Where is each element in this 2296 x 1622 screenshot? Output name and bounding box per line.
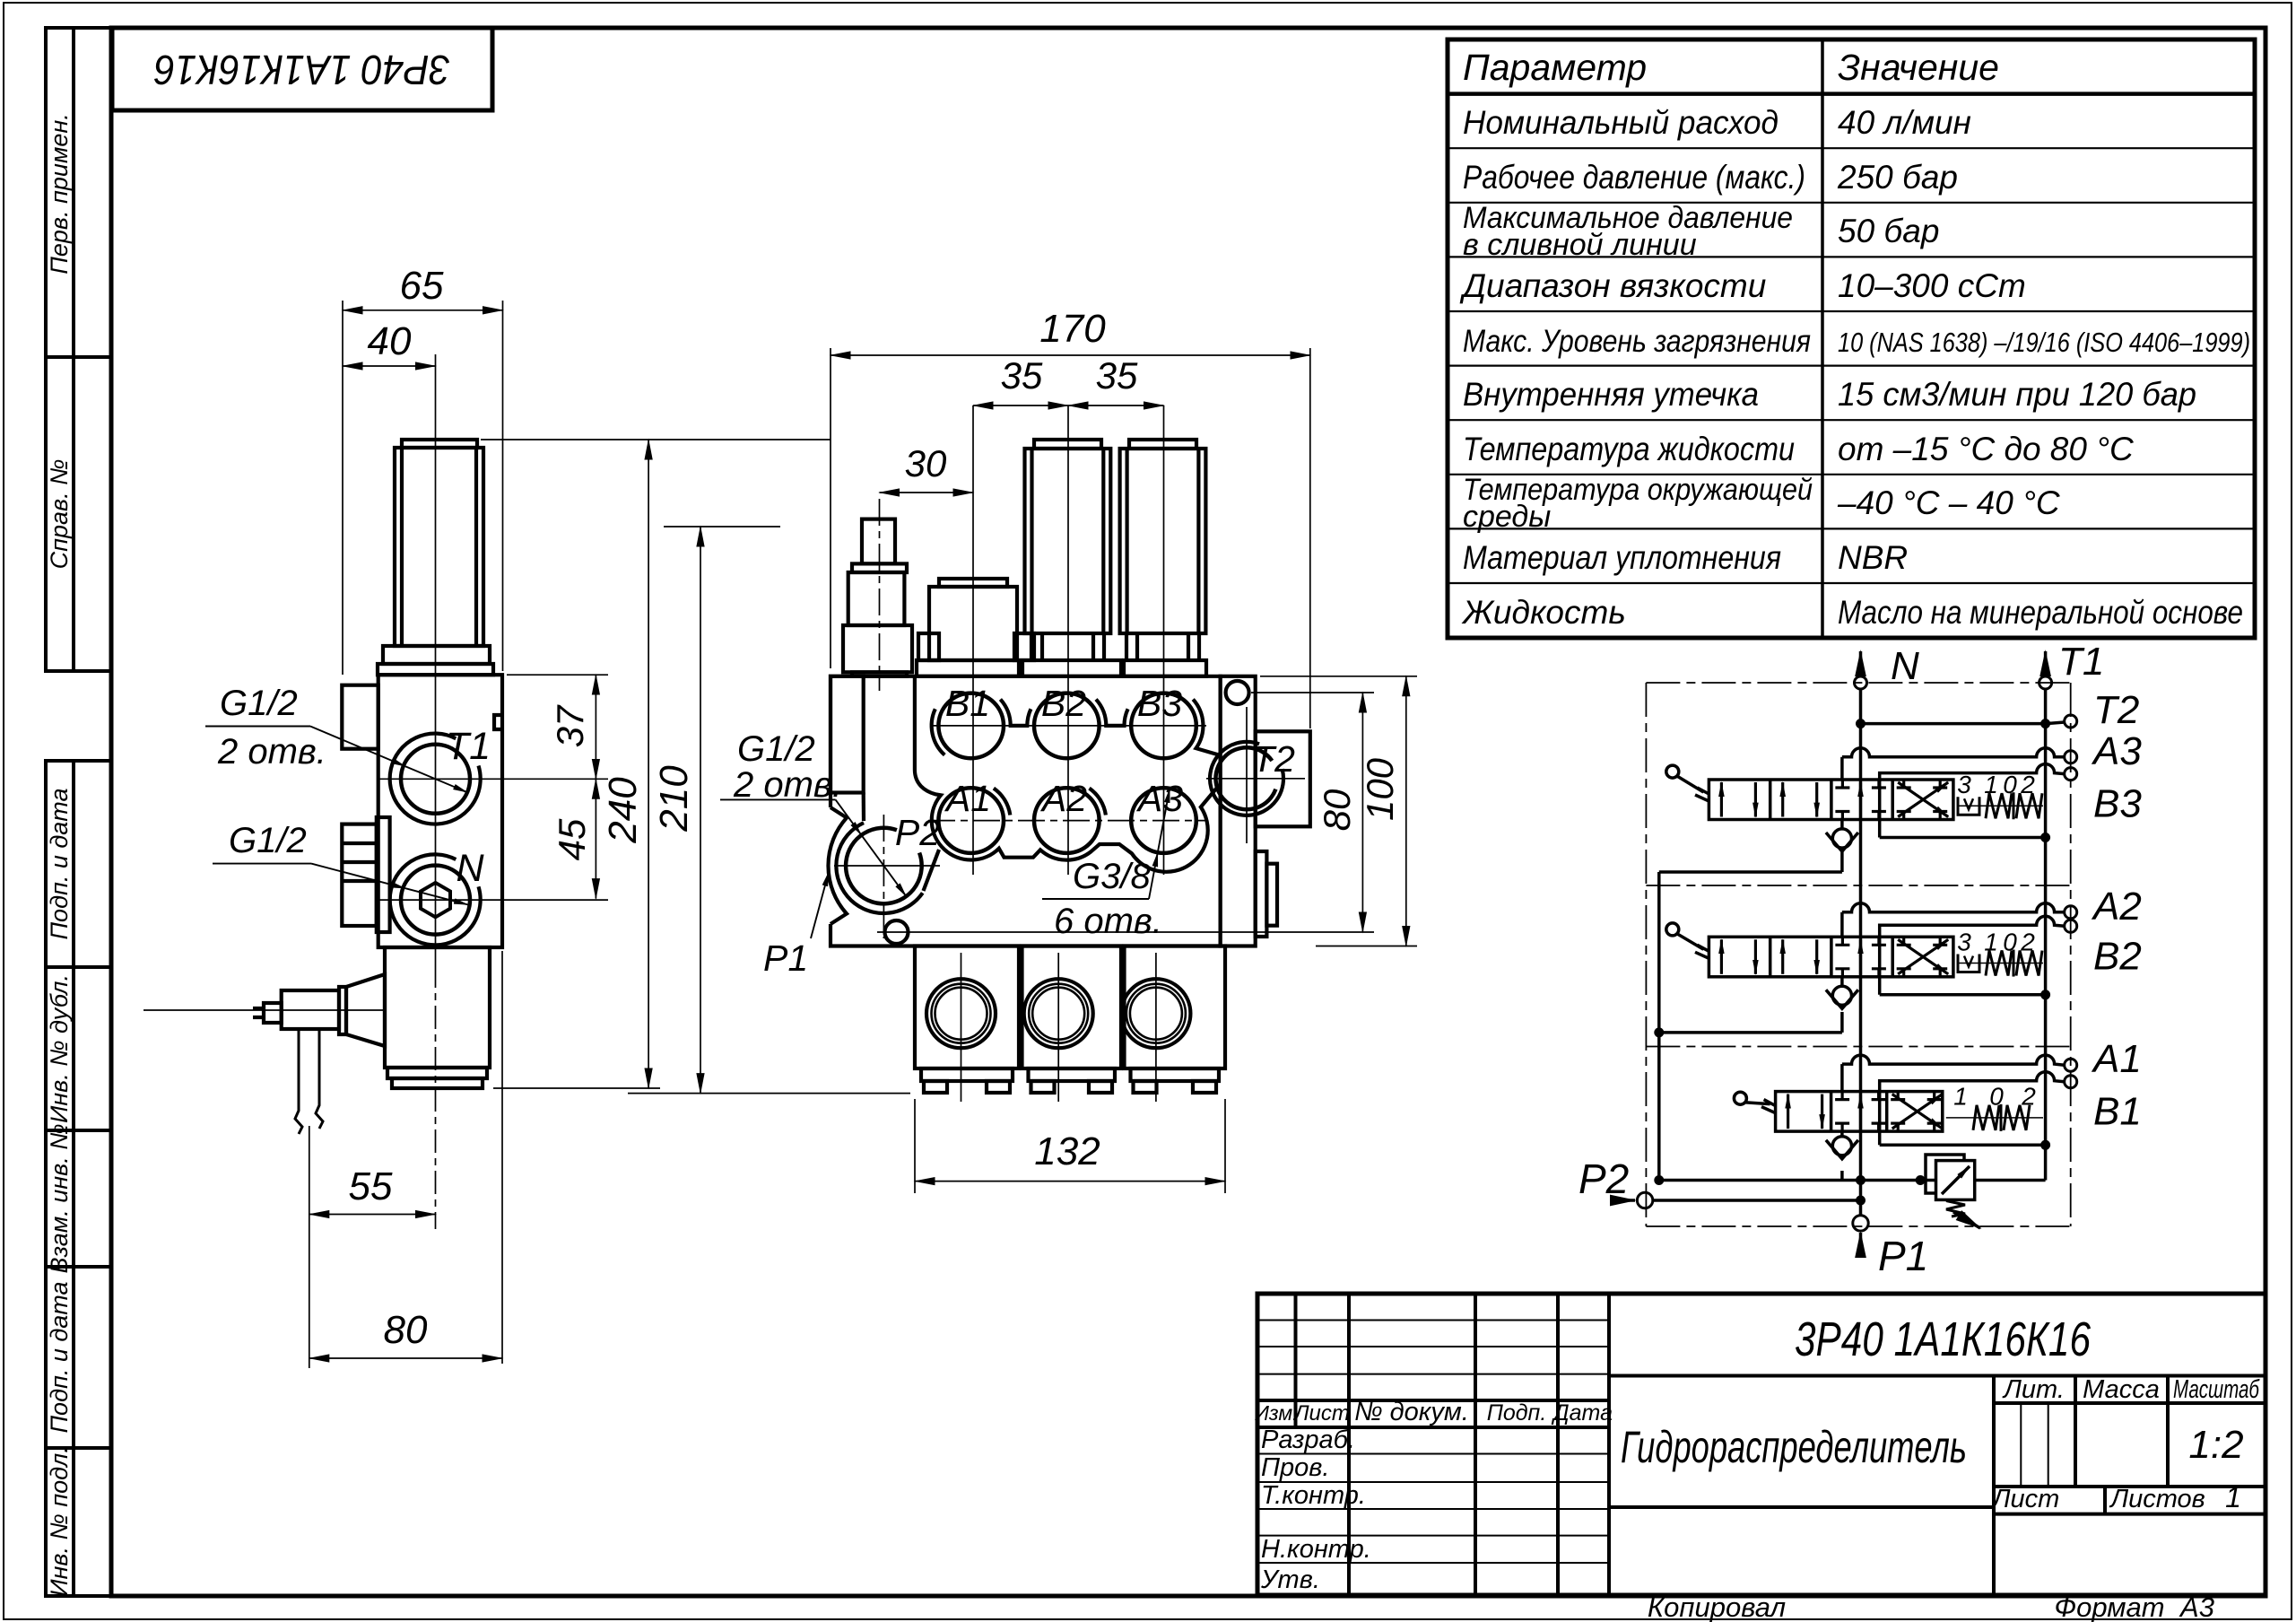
svg-text:132: 132	[1034, 1129, 1100, 1173]
parameter table	[1448, 39, 2255, 638]
svg-text:В2: В2	[1041, 683, 1086, 724]
N riser line	[1859, 689, 1863, 1216]
top stamp box with inverted designation	[112, 28, 492, 110]
svg-text:Номинальный расход: Номинальный расход	[1463, 104, 1779, 141]
main body	[831, 676, 1221, 946]
svg-text:40: 40	[368, 319, 412, 363]
svg-text:10 (NAS 1638) –/19/16 (ISO 440: 10 (NAS 1638) –/19/16 (ISO 4406–1999)	[1838, 327, 2250, 358]
svg-text:Т2: Т2	[1252, 738, 1295, 780]
valve DV2 check valve	[1826, 977, 1858, 1009]
valve DV3 check valve	[1826, 820, 1858, 852]
svg-text:Р2: Р2	[895, 812, 940, 853]
right side tabs	[1256, 851, 1267, 937]
svg-text:В1: В1	[2093, 1090, 2142, 1134]
svg-text:Копировал: Копировал	[1648, 1591, 1786, 1622]
svg-text:50 бар: 50 бар	[1838, 213, 1939, 249]
T1 return line	[2044, 689, 2048, 1145]
dim 210	[628, 527, 910, 1094]
valve DV3 position labels	[1957, 771, 2035, 798]
svg-text:250 бар: 250 бар	[1837, 159, 1958, 196]
label P1 leader	[811, 872, 829, 938]
svg-text:А3: А3	[1135, 778, 1183, 819]
valve DV3 B line / holder	[1880, 764, 2065, 838]
svg-text:1: 1	[1953, 1083, 1968, 1111]
relief valve stack	[862, 519, 895, 564]
svg-text:35: 35	[1096, 354, 1138, 397]
valve DV3 lever	[1666, 765, 1709, 801]
side view lower left block	[342, 824, 377, 926]
svg-text:37: 37	[549, 704, 591, 747]
valve DV1 return springs	[1946, 1104, 2043, 1131]
port labels	[895, 683, 1295, 853]
svg-text:Справ. №: Справ. №	[46, 459, 73, 570]
square cap over section 1	[939, 579, 1007, 587]
svg-text:10–300 сСт: 10–300 сСт	[1838, 267, 2026, 304]
port В3	[2065, 768, 2077, 780]
svg-text:Макс. Уровень загрязнения: Макс. Уровень загрязнения	[1463, 324, 1811, 359]
svg-text:Р2: Р2	[1578, 1155, 1629, 1202]
valve DV2 T return	[1880, 993, 2046, 997]
svg-text:Рабочее давление (макс.): Рабочее давление (макс.)	[1463, 159, 1805, 196]
P2 boss outline	[828, 807, 847, 924]
valve DV1 spool positions	[1788, 1092, 1943, 1132]
port T2 arcs	[1210, 742, 1283, 815]
ports B1 B2 B3 A1 A2 A3 bores	[938, 693, 1196, 853]
hex socket	[421, 883, 450, 917]
svg-text:А3: А3	[2091, 729, 2142, 773]
svg-text:2 отв.: 2 отв.	[217, 732, 326, 772]
port P2 spot face	[836, 823, 922, 913]
valve DV1 B line / holder	[1880, 1072, 2065, 1146]
svg-text:Дата: Дата	[1551, 1400, 1613, 1426]
svg-text:Р1: Р1	[763, 937, 808, 979]
svg-text:30: 30	[905, 442, 947, 484]
relief valve RV	[1926, 1145, 2046, 1228]
leader G3/8 6 otv to A3	[1042, 789, 1170, 899]
subplate dash-dot boundary	[1646, 683, 2070, 1226]
P supply rail	[1657, 872, 1661, 1181]
svg-text:В2: В2	[2093, 934, 2142, 978]
svg-text:Утв.: Утв.	[1260, 1565, 1320, 1594]
pocket slivers A row	[994, 789, 1010, 815]
svg-text:55: 55	[349, 1164, 393, 1208]
svg-text:Инв. № дубл.: Инв. № дубл.	[46, 974, 73, 1123]
svg-text:Листов: Листов	[2109, 1485, 2205, 1513]
dim 40	[343, 365, 436, 367]
svg-text:Взам. инв. №: Взам. инв. №	[46, 1124, 73, 1274]
svg-text:Н.контр.: Н.контр.	[1261, 1535, 1371, 1564]
side view handle	[346, 974, 385, 1046]
box Podp i data 1	[46, 761, 111, 967]
port А2	[2065, 906, 2077, 919]
svg-text:2: 2	[2021, 1083, 2036, 1111]
svg-text:3Р40 1А1К16К16: 3Р40 1А1К16К16	[154, 47, 450, 93]
leader G1/2 to N	[213, 864, 468, 905]
valve DV2 return springs	[1957, 950, 2043, 977]
valve DV1 position labels	[1953, 1083, 2036, 1111]
svg-text:Значение: Значение	[1838, 47, 1999, 88]
svg-text:В3: В3	[1137, 683, 1182, 724]
dim 55	[309, 1126, 436, 1368]
box Vzam inv No	[46, 1130, 111, 1267]
svg-text:Т.контр.: Т.контр.	[1261, 1481, 1366, 1510]
side view actuator	[385, 947, 490, 1068]
port N	[390, 854, 481, 945]
tall cap over section 2	[1034, 440, 1101, 449]
box Inv No podl	[46, 1448, 111, 1596]
svg-text:1: 1	[1984, 928, 1998, 955]
port T1	[2039, 676, 2052, 689]
section top plates	[917, 660, 1019, 676]
svg-text:Р1: Р1	[1878, 1233, 1928, 1279]
bolt hole top right	[1226, 681, 1249, 704]
svg-text:6 отв.: 6 отв.	[1054, 902, 1162, 941]
svg-text:А2: А2	[1039, 778, 1087, 819]
dim 80	[309, 951, 502, 1364]
svg-text:2: 2	[2020, 928, 2035, 955]
svg-text:210: 210	[652, 765, 696, 833]
left margin boxes	[46, 28, 111, 1596]
box Perv primen	[46, 28, 111, 357]
T2 boss block	[1256, 731, 1310, 826]
svg-text:0: 0	[2003, 928, 2017, 955]
valve DV3 A line	[1840, 757, 1844, 780]
svg-text:Разраб.: Разраб.	[1261, 1426, 1355, 1454]
svg-text:А2: А2	[2091, 885, 2142, 929]
svg-text:170: 170	[1039, 307, 1106, 351]
svg-text:45: 45	[551, 818, 593, 860]
valve DV3 spool positions	[1721, 780, 1948, 820]
svg-text:G1/2: G1/2	[737, 729, 815, 769]
pocket contour upper strand	[915, 676, 1219, 872]
dim 65	[343, 301, 503, 675]
leader G1/2 2 otv. to T1	[205, 727, 467, 793]
svg-text:–40 °С – 40 °С: –40 °С – 40 °С	[1837, 484, 2060, 521]
svg-text:Внутренняя утечка: Внутренняя утечка	[1463, 376, 1759, 413]
svg-text:G1/2: G1/2	[229, 821, 307, 860]
valve DV1 check valve	[1826, 1131, 1858, 1159]
port В2	[2065, 920, 2077, 932]
svg-text:В3: В3	[2093, 782, 2142, 826]
center lines central view	[834, 405, 1305, 1102]
dim 240	[481, 440, 831, 1088]
svg-text:35: 35	[1001, 354, 1043, 397]
svg-text:Масса: Масса	[2083, 1375, 2160, 1404]
svg-text:15 см3/мин при 120 бар: 15 см3/мин при 120 бар	[1838, 376, 2196, 413]
dim 170	[831, 348, 1310, 728]
svg-text:1: 1	[1984, 771, 1998, 798]
bolt hole bottom left	[885, 920, 909, 944]
svg-text:Перв. примен.: Перв. примен.	[46, 113, 73, 274]
directional valve DV3 body	[1709, 780, 1952, 820]
P collector line	[1659, 1179, 1936, 1182]
svg-text:3Р40 1А1К16К16: 3Р40 1А1К16К16	[1795, 1312, 2092, 1366]
svg-text:N: N	[1891, 644, 1919, 688]
dim 37	[507, 675, 608, 779]
svg-text:Подп. и дата: Подп. и дата	[46, 788, 73, 939]
svg-text:Лист: Лист	[1292, 1401, 1350, 1426]
svg-text:Параметр: Параметр	[1463, 47, 1647, 88]
dim 80	[877, 693, 1374, 932]
side view wires	[295, 1029, 323, 1134]
svg-text:3: 3	[1957, 771, 1971, 798]
svg-text:Лит.: Лит.	[2002, 1375, 2065, 1404]
directional valve DV1 body	[1776, 1092, 1943, 1132]
svg-text:от –15 °С до 80 °С: от –15 °С до 80 °С	[1838, 431, 2134, 467]
port P2	[1637, 1192, 1652, 1208]
svg-text:3: 3	[1957, 928, 1971, 955]
svg-text:100: 100	[1359, 757, 1401, 821]
svg-text:Т1: Т1	[446, 725, 491, 768]
svg-text:Температура жидкости: Температура жидкости	[1463, 431, 1795, 467]
title block	[1257, 1294, 2266, 1595]
DV3 feed branch	[1659, 870, 1842, 874]
side view upper left block	[342, 685, 378, 749]
valve DV1 T return	[1880, 1144, 2046, 1147]
valve DV2 position labels	[1957, 928, 2035, 955]
dim 35 35	[973, 405, 1164, 406]
relief valve sleeve	[831, 676, 864, 793]
valve DV1 lever	[1734, 1092, 1775, 1112]
svg-text:Изм.: Изм.	[1254, 1401, 1298, 1425]
port А3	[2065, 751, 2077, 763]
valve DV2 spool positions	[1721, 937, 1948, 977]
valve DV3 T return	[1880, 836, 2046, 840]
svg-text:Т1: Т1	[2058, 640, 2104, 684]
leader G1/2 2 otv to P2	[720, 799, 906, 896]
svg-text:Диапазон вязкости: Диапазон вязкости	[1459, 267, 1766, 304]
svg-text:Жидкость: Жидкость	[1461, 594, 1626, 631]
T2 tie line	[1861, 722, 2046, 726]
svg-text:0: 0	[2003, 771, 2017, 798]
box Podp i data 2	[46, 1267, 111, 1448]
svg-text:среды: среды	[1463, 500, 1551, 534]
box Sprav No	[46, 357, 111, 671]
bottom sections	[915, 946, 1225, 1094]
svg-text:А3: А3	[2179, 1591, 2214, 1622]
svg-text:Подп.: Подп.	[1487, 1400, 1547, 1426]
valve DV2 A line	[1840, 912, 1844, 937]
port В1	[2065, 1076, 2077, 1088]
left margin labels	[46, 113, 73, 1597]
box Inv No dubl	[46, 967, 111, 1130]
svg-text:Подп. и дата: Подп. и дата	[46, 1281, 73, 1433]
svg-text:В1: В1	[945, 683, 990, 724]
svg-text:1:2: 1:2	[2188, 1423, 2243, 1467]
right plate strip	[1221, 676, 1256, 946]
svg-text:А1: А1	[2091, 1037, 2142, 1081]
port Т2	[2065, 715, 2077, 728]
valve DV1 A line	[1840, 1064, 1844, 1092]
svg-text:Пров.: Пров.	[1261, 1453, 1329, 1482]
svg-text:80: 80	[384, 1308, 428, 1352]
valve DV2 B line / holder	[1880, 916, 2065, 995]
valve DV3 return springs	[1957, 792, 2043, 819]
dim 132	[915, 1099, 1225, 1193]
svg-text:80: 80	[1316, 789, 1358, 831]
svg-text:Масло на минеральной основе: Масло на минеральной основе	[1838, 594, 2243, 631]
svg-text:2 отв.: 2 отв.	[733, 765, 842, 805]
dim 30	[880, 492, 974, 493]
valve DV2 lever	[1666, 923, 1709, 958]
svg-text:Гидрораспределитель: Гидрораспределитель	[1621, 1422, 1967, 1472]
svg-text:А1: А1	[944, 778, 991, 819]
dim 100	[1260, 676, 1417, 946]
svg-text:40 л/мин: 40 л/мин	[1838, 104, 1971, 141]
side view top cap	[402, 440, 477, 448]
dim 45	[595, 779, 596, 898]
svg-text:Материал уплотнения: Материал уплотнения	[1463, 539, 1781, 576]
svg-text:240: 240	[601, 777, 645, 844]
side view center lines	[143, 354, 608, 1229]
port T1	[390, 734, 481, 824]
svg-text:Лист: Лист	[1991, 1485, 2060, 1513]
port N	[1855, 676, 1867, 689]
svg-text:1: 1	[2225, 1481, 2241, 1513]
svg-text:G1/2: G1/2	[220, 684, 298, 723]
svg-text:2: 2	[2020, 771, 2035, 798]
svg-text:Т2: Т2	[2093, 688, 2139, 732]
svg-text:NBR: NBR	[1838, 539, 1908, 576]
svg-text:Формат: Формат	[2054, 1591, 2164, 1622]
port P1	[1853, 1216, 1868, 1231]
svg-text:N: N	[456, 847, 484, 890]
directional valve DV2 body	[1709, 937, 1952, 977]
svg-text:Масштаб: Масштаб	[2173, 1375, 2260, 1404]
tall cap over section 3	[1129, 440, 1196, 449]
svg-text:0: 0	[1989, 1083, 2004, 1111]
port А1	[2065, 1059, 2077, 1071]
svg-text:в сливной линии: в сливной линии	[1463, 228, 1697, 262]
pocket contour B row	[932, 709, 945, 754]
svg-text:G3/8: G3/8	[1073, 857, 1151, 896]
DV2 feed branch	[1659, 1031, 1842, 1034]
side view body	[378, 675, 502, 947]
svg-text:№ докум.: № докум.	[1354, 1398, 1469, 1426]
P2 line	[1653, 1199, 1861, 1202]
svg-text:65: 65	[400, 264, 444, 308]
svg-text:Инв. № подл.: Инв. № подл.	[46, 1446, 73, 1597]
side view right notch	[494, 715, 502, 729]
